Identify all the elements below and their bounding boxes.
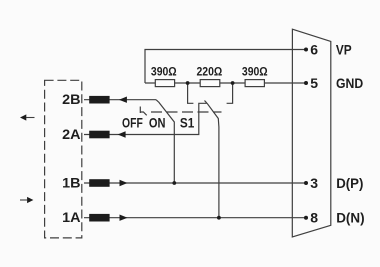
resistor 390 ohm (right) bbox=[245, 80, 264, 87]
arrow on 2B wire (left) bbox=[119, 97, 127, 103]
svg-text:390Ω: 390Ω bbox=[151, 65, 177, 79]
svg-text:5: 5 bbox=[310, 75, 318, 91]
svg-text:220Ω: 220Ω bbox=[197, 65, 223, 79]
pin 8 dot bbox=[304, 216, 308, 220]
switch S1 pole 2 arm and output to 1A bbox=[207, 103, 219, 218]
wire 1B to pin 3 bbox=[84, 182, 306, 184]
junction dot pole1 on 1B bbox=[172, 181, 176, 185]
wire 2B bbox=[84, 99, 156, 101]
wire resistor rail to GND pin 5 bbox=[145, 82, 306, 84]
dashed terminal block outline bbox=[45, 80, 82, 238]
wire top VP rail bbox=[145, 50, 306, 84]
svg-text:D(N): D(N) bbox=[336, 210, 364, 226]
wire 1A to pin 8 bbox=[84, 217, 306, 219]
svg-text:6: 6 bbox=[310, 41, 318, 57]
pin 5 dot bbox=[304, 81, 308, 85]
svg-text:3: 3 bbox=[310, 175, 318, 191]
switch S1 pole 1 contact step bbox=[156, 100, 159, 102]
svg-text:8: 8 bbox=[310, 210, 318, 226]
svg-text:OFF: OFF bbox=[122, 114, 143, 130]
terminal ferrite block 2A bbox=[89, 131, 109, 139]
svg-text:D(P): D(P) bbox=[336, 175, 363, 191]
junction dot B (220/390) bbox=[231, 81, 235, 85]
bus direction arrow in (bottom left) bbox=[20, 197, 33, 203]
arrow on 1B wire (right) bbox=[120, 180, 128, 186]
junction dot pole2 on 1A bbox=[217, 216, 221, 220]
switch S1 pole 1 arm and output to 1B bbox=[159, 102, 175, 183]
arrow on 1A wire (right) bbox=[120, 215, 128, 221]
arrow on 2A wire (left) bbox=[118, 131, 126, 137]
svg-text:390Ω: 390Ω bbox=[242, 65, 268, 79]
bus direction arrow out (top left) bbox=[20, 114, 35, 120]
junction dot A (390/220) bbox=[186, 81, 190, 85]
pin 6 dot bbox=[304, 48, 308, 52]
svg-text:1B: 1B bbox=[62, 174, 80, 190]
svg-text:VP: VP bbox=[336, 41, 352, 57]
terminal ferrite block 1A bbox=[89, 214, 109, 222]
svg-text:ON: ON bbox=[149, 114, 166, 130]
svg-text:2A: 2A bbox=[62, 126, 80, 142]
stub contact from junction A bbox=[188, 83, 194, 103]
terminal ferrite block 2B bbox=[89, 96, 109, 104]
connector X12 D-SUB body bbox=[292, 29, 331, 237]
resistor 390 ohm (left) bbox=[155, 80, 174, 87]
svg-text:S1: S1 bbox=[180, 114, 195, 130]
svg-text:GND: GND bbox=[336, 75, 363, 91]
svg-text:1A: 1A bbox=[62, 209, 80, 225]
pin 3 dot bbox=[304, 181, 308, 185]
switch S1 pole 2 contact step bbox=[205, 101, 207, 104]
wire 2A bbox=[84, 103, 207, 134]
OFF position icon bbox=[140, 107, 146, 116]
switch S1 gang link (dashed) bbox=[151, 111, 222, 113]
stub contact from junction B bbox=[227, 83, 233, 103]
terminal ferrite block 1B bbox=[89, 179, 109, 187]
svg-text:2B: 2B bbox=[62, 91, 80, 107]
resistor 220 ohm (middle) bbox=[200, 80, 220, 87]
